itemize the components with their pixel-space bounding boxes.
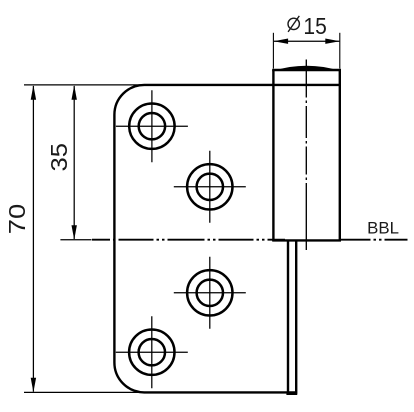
svg-text:35: 35: [46, 143, 72, 172]
svg-text:15: 15: [303, 13, 326, 39]
svg-text:BBL: BBL: [367, 220, 399, 238]
svg-text:70: 70: [4, 204, 30, 235]
